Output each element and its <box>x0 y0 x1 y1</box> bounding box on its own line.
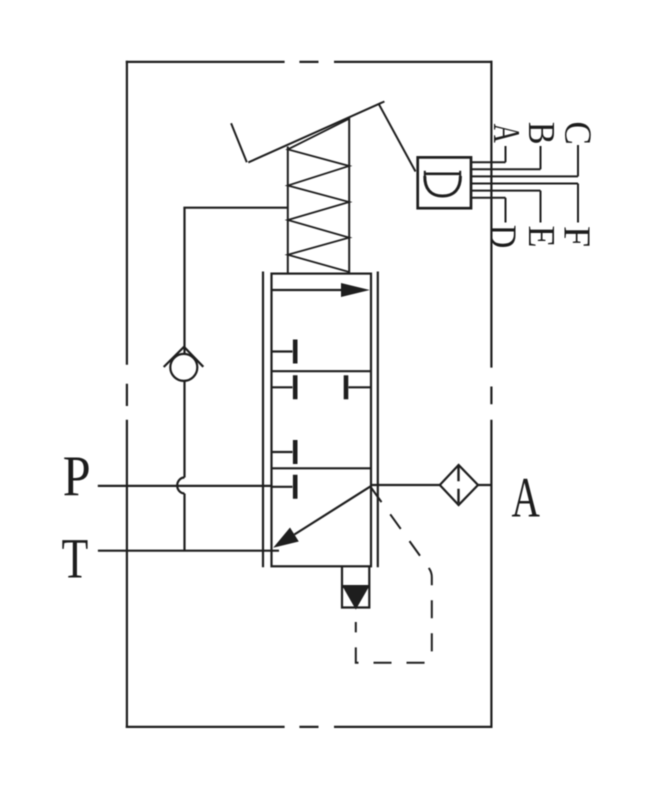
svg-text:B: B <box>520 122 562 145</box>
svg-text:E: E <box>520 225 562 247</box>
svg-text:P: P <box>63 444 91 508</box>
svg-text:A: A <box>512 465 540 529</box>
svg-text:D: D <box>482 225 525 249</box>
svg-text:A: A <box>485 124 527 143</box>
svg-text:F: F <box>555 226 597 247</box>
svg-text:T: T <box>62 528 89 591</box>
svg-text:C: C <box>557 122 600 145</box>
